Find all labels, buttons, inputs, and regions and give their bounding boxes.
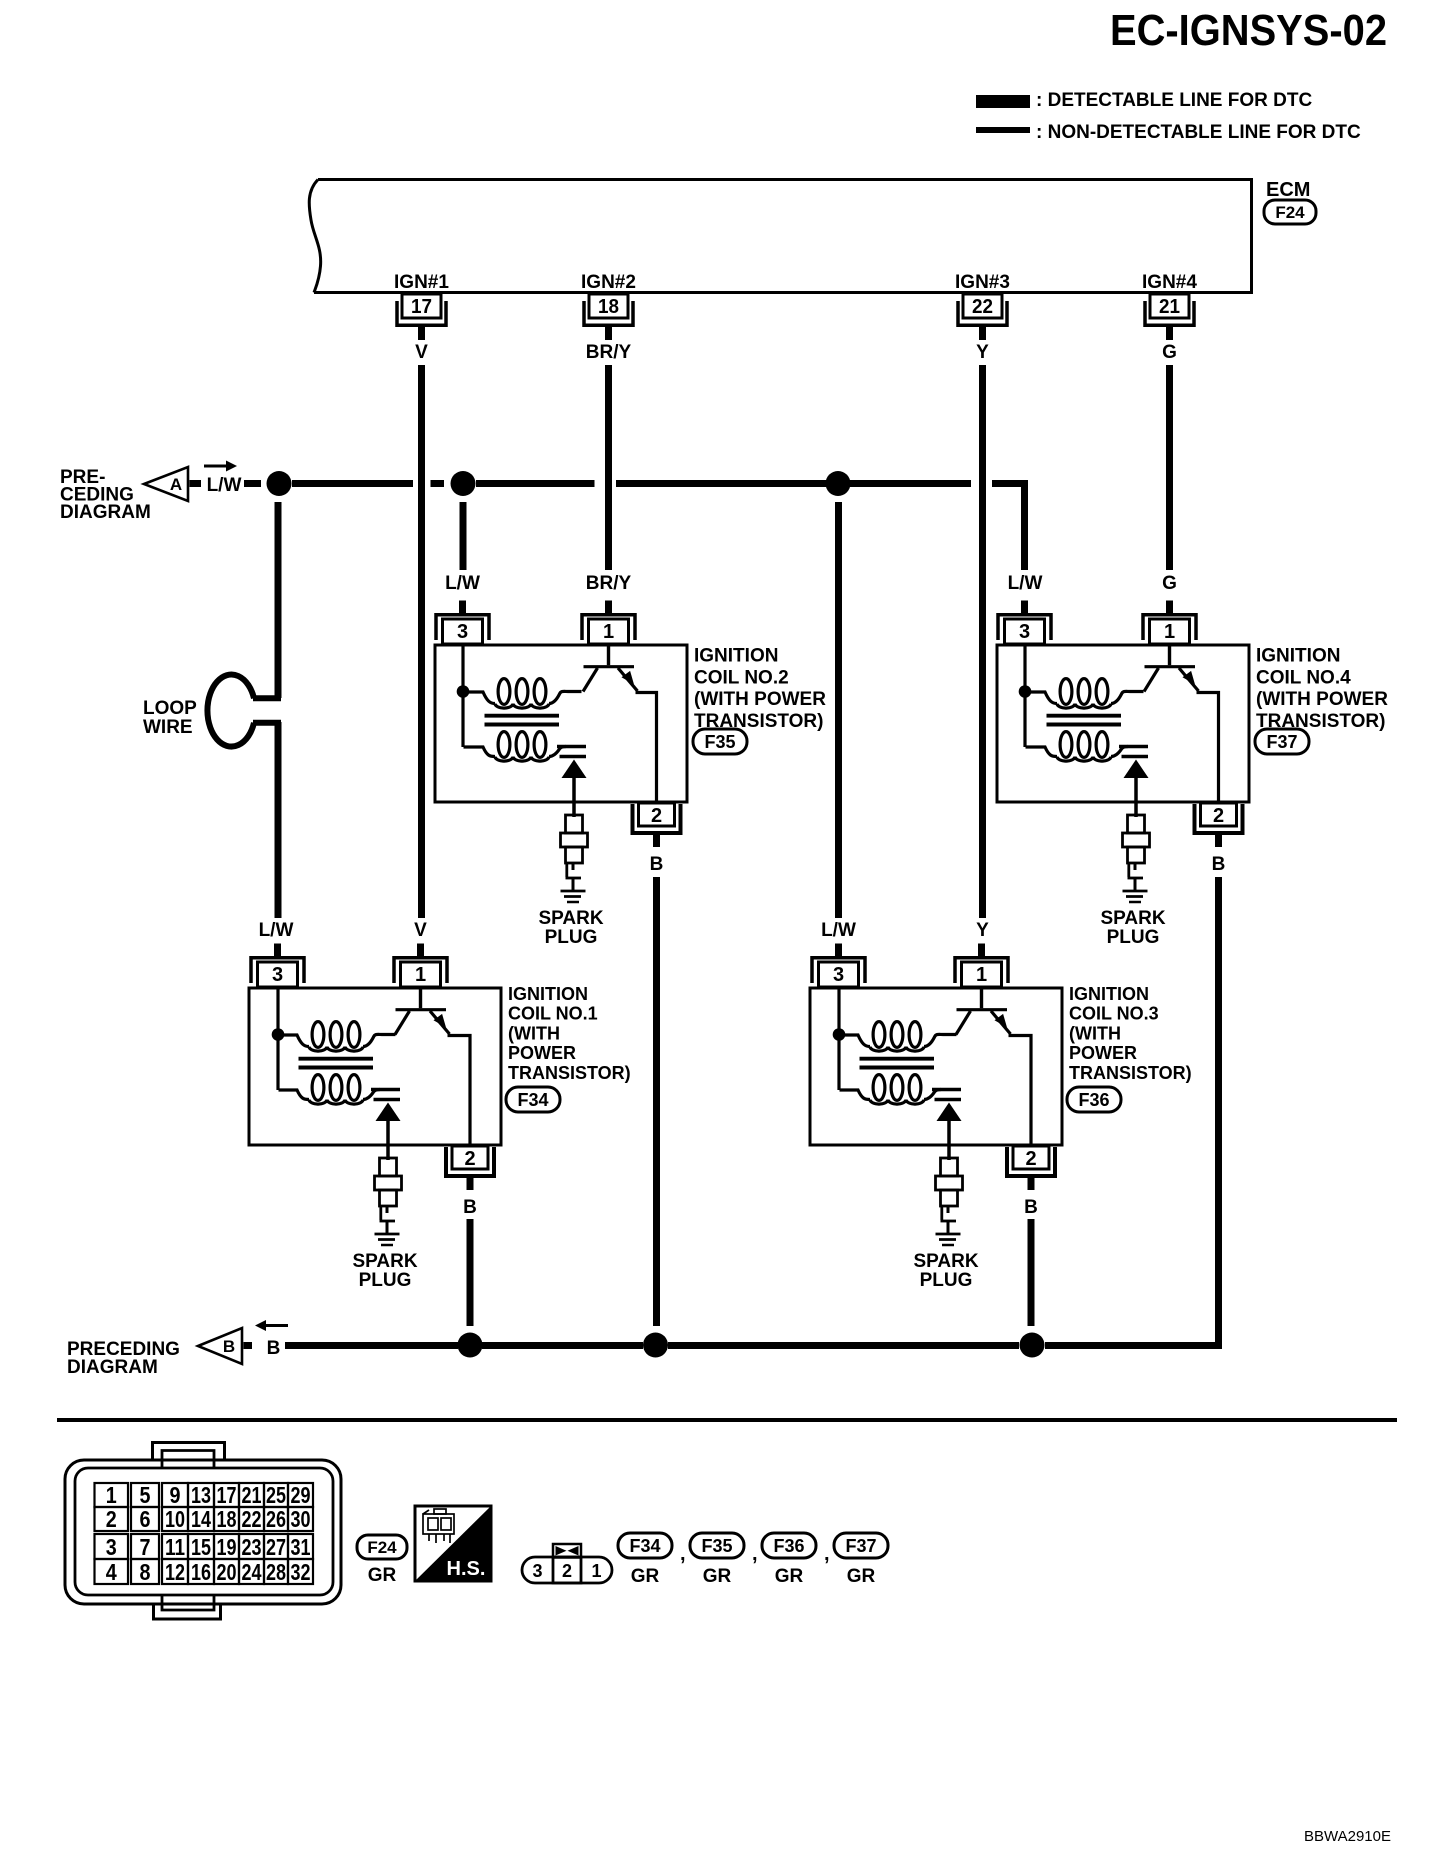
svg-text:L/W: L/W	[1008, 573, 1043, 594]
svg-text:8: 8	[140, 1559, 151, 1585]
svg-text:1: 1	[415, 964, 426, 986]
svg-text:3: 3	[532, 1561, 542, 1581]
svg-text:1: 1	[1164, 621, 1175, 643]
junction dot B2	[643, 1333, 668, 1358]
svg-text:B: B	[1212, 854, 1226, 875]
coil No.2 pin 2	[633, 803, 681, 847]
svg-text:IGN#3: IGN#3	[955, 272, 1010, 293]
coil No.3 internal wire to secondary	[837, 1035, 840, 1091]
coil No.1 pin 2	[446, 1146, 494, 1190]
arrow (direction) left	[266, 1324, 288, 1327]
coil No.4 wire B stub	[1215, 835, 1222, 847]
coil No.1 power transistor	[395, 988, 470, 1146]
coil No.1 spark plug	[375, 1158, 402, 1245]
svg-text:21: 21	[1159, 296, 1180, 318]
wire G vertical (ECM 21 to coil No.4 pin 1)	[1166, 365, 1173, 570]
svg-text:WIRE: WIRE	[143, 717, 193, 738]
H.S. badge	[415, 1506, 491, 1581]
svg-text:2: 2	[651, 805, 662, 827]
coil No.2 pin 3	[436, 601, 489, 645]
svg-text:9: 9	[170, 1482, 181, 1508]
coil No.2 HV gap electrodes	[557, 745, 586, 748]
wire V vertical (ECM 17 to coil No.1 pin 1)	[418, 365, 425, 918]
coil No.4 HV arrow	[1124, 760, 1149, 779]
coil No.1 label	[506, 984, 631, 1112]
ignition coil No.2 box	[435, 645, 687, 802]
coil No.2 connector ref F35	[693, 729, 747, 754]
svg-text:,: ,	[680, 1543, 686, 1565]
coil No.2 secondary winding	[464, 732, 567, 762]
svg-text:5: 5	[140, 1482, 151, 1508]
svg-text:3: 3	[457, 621, 468, 643]
svg-text:H.S.: H.S.	[447, 1558, 486, 1580]
svg-text:IGN#4: IGN#4	[1142, 272, 1197, 293]
svg-text:16: 16	[191, 1559, 211, 1585]
svg-text:13: 13	[191, 1482, 211, 1508]
svg-text:IGNITION: IGNITION	[694, 646, 778, 667]
svg-text:18: 18	[217, 1506, 237, 1532]
coil No.1 wire B stub	[467, 1178, 474, 1190]
svg-text:F37: F37	[1266, 732, 1297, 752]
svg-text:29: 29	[291, 1482, 311, 1508]
svg-text:(WITH: (WITH	[1069, 1023, 1121, 1043]
junction dot A3	[826, 471, 851, 496]
coil No.1 connector ref F34	[506, 1087, 560, 1112]
svg-text:GR: GR	[631, 1566, 660, 1587]
svg-text:2: 2	[464, 1148, 475, 1170]
ignition coil No.1 box	[249, 988, 501, 1145]
coil No.3 core	[860, 1059, 935, 1068]
wire B coil No.3 down to bus	[1028, 1219, 1035, 1326]
svg-text:POWER: POWER	[508, 1043, 576, 1063]
coil No.2 spark plug ground	[561, 890, 586, 893]
svg-text:BR/Y: BR/Y	[586, 342, 632, 363]
svg-text:(WITH POWER: (WITH POWER	[694, 689, 826, 710]
connector ref F37 (bottom)	[834, 1533, 888, 1558]
legend non-detectable line swatch	[976, 127, 1030, 133]
coil No.4 secondary winding	[1026, 732, 1129, 762]
wire B coil No.1 down to bus	[467, 1219, 474, 1326]
svg-text:1: 1	[976, 964, 987, 986]
svg-text:BR/Y: BR/Y	[586, 573, 632, 594]
coil No.2 internal wire to secondary	[461, 692, 464, 748]
coil No.1 pin 1	[394, 944, 447, 988]
coil No.3 pin 1	[955, 944, 1008, 988]
junction dot B1	[458, 1333, 483, 1358]
coil No.1 primary winding	[282, 1022, 396, 1052]
svg-text:12: 12	[165, 1559, 185, 1585]
coil No.1 secondary winding	[279, 1075, 381, 1105]
svg-text:F37: F37	[845, 1536, 876, 1556]
svg-text:18: 18	[598, 296, 619, 318]
ECM connector pin grid	[95, 1483, 314, 1584]
coil No.4 connector ref F37	[1255, 729, 1309, 754]
svg-text:V: V	[414, 920, 427, 941]
coil No.4 spark plug	[1123, 815, 1150, 902]
connector ref F36 (bottom)	[762, 1533, 816, 1558]
coil No.3 HV arrow	[937, 1103, 962, 1122]
svg-text:28: 28	[266, 1559, 286, 1585]
coil No.2 primary winding	[467, 679, 582, 709]
ignition coil No.3 box	[810, 988, 1062, 1145]
wire L/W from dot A2 down to coil No.2 pin 3	[460, 502, 467, 570]
coil No.3 label	[1067, 984, 1192, 1112]
junction dot B3	[1020, 1333, 1045, 1358]
svg-text:G: G	[1162, 342, 1177, 363]
loop wire	[207, 675, 281, 747]
top bus elbow down to coil No.4 pin 3	[992, 484, 1025, 571]
svg-text:F24: F24	[367, 1538, 397, 1557]
svg-text:F35: F35	[704, 732, 735, 752]
ECM pin 21 (IGN#4)	[1142, 272, 1197, 340]
svg-text:: NON-DETECTABLE LINE FOR DTC: : NON-DETECTABLE LINE FOR DTC	[1036, 122, 1361, 143]
wire BR/Y vertical (ECM 18 to coil No.2 pin 1)	[605, 365, 612, 570]
separator rule	[57, 1418, 1397, 1422]
svg-text:SPARK: SPARK	[913, 1251, 978, 1272]
svg-text:GR: GR	[847, 1566, 876, 1587]
svg-text:L/W: L/W	[207, 475, 242, 496]
svg-text:2: 2	[562, 1561, 572, 1581]
svg-text:25: 25	[266, 1482, 286, 1508]
arrow (direction) right	[204, 465, 226, 468]
top bus wire segments (L/W)	[190, 480, 202, 487]
svg-text:TRANSISTOR): TRANSISTOR)	[508, 1063, 631, 1083]
svg-text:3: 3	[833, 964, 844, 986]
wire B coil No.2 down to bus	[653, 877, 660, 1326]
svg-text:SPARK: SPARK	[538, 908, 603, 929]
connector ref F24 (bottom)	[357, 1535, 407, 1559]
ECM pin 18 (IGN#2)	[581, 272, 636, 340]
svg-text:A: A	[170, 475, 182, 494]
H.S. badge connector icon	[423, 1509, 454, 1543]
svg-text:COIL NO.4: COIL NO.4	[1256, 667, 1351, 688]
coil No.3 connector ref F36	[1067, 1087, 1121, 1112]
coil No.1 HV arrow	[376, 1103, 401, 1122]
svg-text:B: B	[267, 1338, 281, 1359]
coil No.2 core	[485, 716, 560, 725]
coil No.4 primary winding	[1029, 679, 1144, 709]
junction dot A2	[451, 471, 476, 496]
svg-text:17: 17	[217, 1482, 237, 1508]
svg-text:EC-IGNSYS-02: EC-IGNSYS-02	[1110, 6, 1387, 55]
svg-text:F34: F34	[629, 1536, 660, 1556]
coil No.2 label	[693, 646, 826, 755]
coil No.3 wire B stub	[1028, 1178, 1035, 1190]
svg-text:32: 32	[291, 1559, 311, 1585]
svg-text:26: 26	[266, 1506, 286, 1532]
svg-text:IGN#2: IGN#2	[581, 272, 636, 293]
coil No.3 primary winding	[843, 1022, 957, 1052]
wire L/W continues to coil No.1 pin 3	[275, 722, 282, 918]
coil No.3 junction node	[833, 1028, 846, 1041]
svg-text:PLUG: PLUG	[920, 1270, 973, 1291]
coil No.1 core	[299, 1059, 374, 1068]
svg-text:COIL NO.3: COIL NO.3	[1069, 1004, 1159, 1024]
coil No.4 label	[1255, 646, 1388, 755]
svg-text:14: 14	[191, 1506, 211, 1532]
connector triangle B	[198, 1328, 242, 1364]
ignition coil No.4 box	[997, 645, 1249, 802]
svg-text:,: ,	[824, 1543, 830, 1565]
svg-text:Y: Y	[976, 920, 989, 941]
svg-text:15: 15	[191, 1534, 211, 1560]
connector ref F34 (bottom)	[618, 1533, 672, 1558]
wire L/W from dot A3 down to coil No.3 pin 3	[835, 502, 842, 918]
svg-text:F35: F35	[701, 1536, 732, 1556]
svg-text:IGNITION: IGNITION	[508, 984, 588, 1004]
svg-text:3: 3	[106, 1534, 117, 1560]
coil No.3 spark plug	[936, 1158, 963, 1245]
svg-text:24: 24	[242, 1559, 262, 1585]
svg-text:F24: F24	[1275, 203, 1305, 222]
svg-text:Y: Y	[976, 342, 989, 363]
svg-text:L/W: L/W	[259, 920, 294, 941]
svg-text:17: 17	[411, 296, 432, 318]
coil No.1 internal wire pin3	[276, 988, 279, 1035]
svg-text:(WITH: (WITH	[508, 1023, 560, 1043]
svg-text:DIAGRAM: DIAGRAM	[60, 502, 151, 523]
coil No.4 pin 2	[1195, 803, 1243, 847]
svg-text:GR: GR	[703, 1566, 732, 1587]
coil No.1 pin 3	[251, 944, 304, 988]
wire Y vertical (ECM 22 to coil No.3 pin 1)	[979, 365, 986, 918]
svg-text:IGNITION: IGNITION	[1069, 984, 1149, 1004]
junction dot A1	[267, 471, 292, 496]
coil No.4 junction node	[1019, 685, 1032, 698]
svg-text:1: 1	[591, 1561, 601, 1581]
coil No.4 pin 3	[998, 601, 1051, 645]
svg-text:B: B	[463, 1197, 477, 1218]
coil No.2 junction node	[457, 685, 470, 698]
svg-text:B: B	[223, 1337, 235, 1356]
svg-text:22: 22	[242, 1506, 262, 1532]
coil No.3 HV gap electrodes	[932, 1088, 961, 1091]
svg-text:22: 22	[972, 296, 993, 318]
svg-text:10: 10	[165, 1506, 185, 1532]
coil No.2 internal wire pin3	[461, 645, 464, 692]
svg-text:B: B	[650, 854, 664, 875]
coil No.4 internal wire to secondary	[1023, 692, 1026, 748]
svg-text:27: 27	[266, 1534, 286, 1560]
svg-text:B: B	[1024, 1197, 1038, 1218]
svg-text:SPARK: SPARK	[1100, 908, 1165, 929]
svg-text:GR: GR	[775, 1566, 804, 1587]
svg-text:2: 2	[1213, 805, 1224, 827]
connector ref F35 (bottom)	[690, 1533, 744, 1558]
coil No.4 core	[1047, 716, 1122, 725]
svg-text:1: 1	[106, 1482, 117, 1508]
svg-text:: DETECTABLE LINE FOR DTC: : DETECTABLE LINE FOR DTC	[1036, 90, 1312, 111]
coil No.3 secondary winding	[840, 1075, 942, 1105]
coil No.3 power transistor	[956, 988, 1031, 1146]
svg-text:COIL NO.1: COIL NO.1	[508, 1004, 598, 1024]
svg-text:3: 3	[1019, 621, 1030, 643]
svg-text:(WITH POWER: (WITH POWER	[1256, 689, 1388, 710]
coil No.4 HV gap electrodes	[1119, 745, 1148, 748]
svg-text:4: 4	[106, 1559, 117, 1585]
svg-text:20: 20	[217, 1559, 237, 1585]
svg-text:L/W: L/W	[445, 573, 480, 594]
coil No.4 internal wire pin3	[1023, 645, 1026, 692]
svg-text:2: 2	[106, 1506, 117, 1532]
svg-text:2: 2	[1025, 1148, 1036, 1170]
coil No.3 pin 2	[1007, 1146, 1055, 1190]
coil No.3 pin 3	[812, 944, 865, 988]
svg-text:ECM: ECM	[1266, 179, 1310, 201]
svg-text:IGNITION: IGNITION	[1256, 646, 1340, 667]
ECM pin 22 (IGN#3)	[955, 272, 1010, 340]
coil No.1 spark plug ground	[375, 1233, 400, 1236]
coil No.1 junction node	[272, 1028, 285, 1041]
coil No.4 power transistor	[1144, 645, 1219, 803]
svg-text:POWER: POWER	[1069, 1043, 1137, 1063]
svg-text:PLUG: PLUG	[545, 927, 598, 948]
coil No.1 HV gap electrodes	[371, 1088, 400, 1091]
ECM connector ref F24	[1264, 200, 1316, 224]
svg-text:COIL NO.2: COIL NO.2	[694, 667, 789, 688]
svg-text:23: 23	[242, 1534, 262, 1560]
svg-text:7: 7	[140, 1534, 151, 1560]
svg-text:SPARK: SPARK	[352, 1251, 417, 1272]
coil No.2 power transistor	[583, 645, 657, 803]
coil No.3 spark plug ground	[936, 1233, 961, 1236]
svg-text:TRANSISTOR): TRANSISTOR)	[1069, 1063, 1192, 1083]
connector triangle A	[144, 467, 188, 501]
svg-text:1: 1	[603, 621, 614, 643]
svg-text:PLUG: PLUG	[359, 1270, 412, 1291]
svg-text:21: 21	[242, 1482, 262, 1508]
svg-text:31: 31	[291, 1534, 311, 1560]
bottom bus wire segments (B)	[244, 1342, 253, 1349]
svg-text:G: G	[1162, 573, 1177, 594]
svg-text:30: 30	[291, 1506, 311, 1532]
svg-text:DIAGRAM: DIAGRAM	[67, 1357, 158, 1378]
wire B coil No.4 down to bus elbow	[1045, 877, 1219, 1346]
coil No.4 spark plug ground	[1123, 890, 1148, 893]
coil No.3 internal wire pin3	[837, 988, 840, 1035]
svg-text:6: 6	[140, 1506, 151, 1532]
coil No.2 pin 1	[582, 601, 635, 645]
svg-text:IGN#1: IGN#1	[394, 272, 449, 293]
coil No.2 wire B stub	[653, 835, 660, 847]
coil No.4 pin 1	[1143, 601, 1196, 645]
svg-text:19: 19	[217, 1534, 237, 1560]
svg-text:11: 11	[165, 1534, 185, 1560]
coil No.2 HV arrow	[562, 760, 587, 779]
svg-text:L/W: L/W	[821, 920, 856, 941]
svg-text:F34: F34	[517, 1090, 548, 1110]
svg-text:,: ,	[752, 1543, 758, 1565]
svg-text:F36: F36	[1078, 1090, 1109, 1110]
svg-text:PLUG: PLUG	[1107, 927, 1160, 948]
coil connector face (3-2-1)	[522, 1544, 612, 1583]
coil No.2 spark plug	[561, 815, 588, 902]
svg-text:BBWA2910E: BBWA2910E	[1304, 1828, 1391, 1845]
legend detectable line swatch	[976, 95, 1030, 108]
svg-text:LOOP: LOOP	[143, 698, 197, 719]
svg-text:3: 3	[272, 964, 283, 986]
ECM pin 17 (IGN#1)	[394, 272, 449, 340]
svg-text:F36: F36	[773, 1536, 804, 1556]
wire L/W from dot A1 down to loop wire	[275, 502, 282, 698]
ECM box	[314, 180, 1252, 293]
svg-text:GR: GR	[368, 1565, 397, 1586]
coil No.1 internal wire to secondary	[276, 1035, 279, 1091]
ECM connector face F24	[65, 1443, 341, 1620]
svg-text:V: V	[415, 342, 428, 363]
